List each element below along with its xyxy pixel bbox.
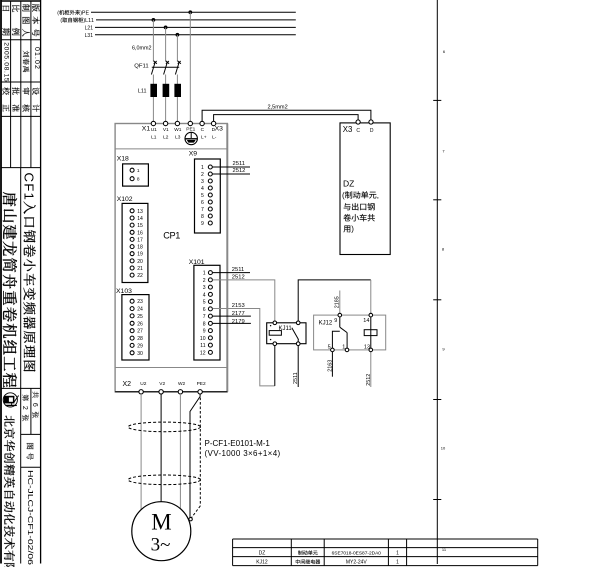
svg-text:10: 10 — [441, 446, 446, 451]
svg-text:10: 10 — [200, 336, 206, 342]
svg-text:9: 9 — [203, 329, 206, 335]
svg-text:11: 11 — [200, 343, 205, 349]
svg-text:2153: 2153 — [232, 303, 245, 309]
svg-text:6SE7018-0ES87-2DA0: 6SE7018-0ES87-2DA0 — [332, 551, 382, 557]
svg-text:L1: L1 — [151, 135, 157, 141]
svg-text:QF11: QF11 — [134, 64, 148, 70]
svg-text:MY2-24V: MY2-24V — [346, 560, 368, 566]
svg-text:9: 9 — [201, 221, 204, 227]
svg-text:X2: X2 — [123, 381, 132, 388]
svg-text:6: 6 — [201, 200, 204, 206]
svg-text:9: 9 — [334, 318, 337, 324]
svg-text:2177: 2177 — [232, 311, 245, 317]
svg-text:1: 1 — [203, 271, 206, 277]
svg-text:18: 18 — [137, 245, 143, 251]
svg-text:U2: U2 — [140, 381, 146, 387]
svg-text:PE1: PE1 — [186, 127, 195, 133]
svg-text:X3: X3 — [215, 126, 224, 133]
svg-text:2179: 2179 — [232, 319, 245, 325]
svg-text:C: C — [201, 127, 205, 133]
svg-text:3: 3 — [203, 285, 206, 291]
svg-text:4: 4 — [203, 292, 206, 298]
svg-text:2185: 2185 — [335, 296, 341, 308]
svg-text:2,5mm2: 2,5mm2 — [268, 105, 288, 111]
svg-text:8: 8 — [203, 321, 206, 327]
svg-text:4: 4 — [201, 186, 204, 192]
svg-text:2512: 2512 — [232, 274, 245, 280]
svg-text:2511: 2511 — [232, 267, 244, 273]
svg-text:X1: X1 — [142, 126, 151, 133]
svg-text:X18: X18 — [117, 156, 129, 163]
svg-text:HC-JLCJ-CF1-02/06: HC-JLCJ-CF1-02/06 — [26, 470, 35, 565]
svg-text:21: 21 — [137, 266, 143, 272]
svg-text:2511: 2511 — [233, 161, 245, 167]
svg-text:X9: X9 — [189, 151, 198, 158]
svg-text:1: 1 — [137, 168, 140, 174]
svg-text:(: ( — [60, 18, 62, 24]
svg-text:14: 14 — [363, 318, 369, 324]
svg-text:3~: 3~ — [151, 535, 171, 556]
svg-text:P-CF1-E0101-M-1: P-CF1-E0101-M-1 — [205, 439, 271, 448]
svg-text:7: 7 — [203, 314, 206, 320]
svg-text:8: 8 — [201, 214, 204, 220]
svg-text:25: 25 — [137, 314, 143, 320]
svg-text:2: 2 — [21, 406, 28, 410]
svg-text:(: ( — [342, 191, 345, 200]
svg-text:D: D — [212, 127, 216, 133]
svg-text:17: 17 — [137, 237, 143, 243]
svg-text:W2: W2 — [178, 381, 186, 387]
svg-text:23: 23 — [137, 299, 143, 305]
svg-text:M: M — [151, 510, 171, 535]
svg-text:V1: V1 — [163, 127, 169, 133]
svg-text:1: 1 — [396, 560, 399, 566]
svg-text:2511: 2511 — [293, 372, 299, 384]
svg-text:,: , — [377, 191, 379, 200]
svg-text:L-: L- — [212, 135, 217, 141]
svg-text:U1: U1 — [151, 127, 157, 133]
svg-text:16: 16 — [137, 230, 143, 236]
svg-text:D: D — [370, 128, 374, 134]
svg-text:2005.08.15: 2005.08.15 — [3, 42, 10, 82]
svg-text:15: 15 — [137, 223, 143, 229]
svg-text:(VV-1000 3×6+1×4): (VV-1000 3×6+1×4) — [205, 449, 281, 458]
svg-text:V2: V2 — [159, 381, 165, 387]
svg-text:X3: X3 — [343, 125, 353, 134]
svg-text:01.02: 01.02 — [33, 47, 40, 70]
svg-text:13: 13 — [137, 209, 143, 215]
svg-text:2: 2 — [201, 172, 204, 178]
svg-text:W1: W1 — [174, 127, 182, 133]
svg-text:L31: L31 — [85, 33, 94, 39]
svg-text:L2: L2 — [163, 135, 169, 141]
svg-text:24: 24 — [137, 307, 143, 313]
svg-text:27: 27 — [137, 329, 143, 335]
svg-text:L11: L11 — [138, 89, 147, 95]
svg-text:22: 22 — [137, 273, 143, 279]
svg-text:1: 1 — [201, 165, 204, 171]
svg-text:DZ: DZ — [259, 551, 266, 557]
svg-text:20: 20 — [137, 259, 143, 265]
svg-text:L21: L21 — [85, 25, 94, 31]
svg-text:14: 14 — [137, 216, 143, 222]
svg-text:6,0mm2: 6,0mm2 — [132, 45, 151, 51]
svg-text:6: 6 — [203, 307, 206, 313]
svg-text:): ) — [351, 225, 354, 234]
svg-text:30: 30 — [137, 351, 143, 357]
svg-text:19: 19 — [137, 252, 143, 258]
svg-text:7: 7 — [201, 207, 204, 213]
svg-text:F: F — [22, 183, 37, 191]
svg-text:3: 3 — [201, 179, 204, 185]
svg-text:L+: L+ — [201, 135, 207, 141]
svg-text:DZ: DZ — [343, 178, 354, 188]
svg-text:8: 8 — [137, 177, 140, 183]
svg-text:CP1: CP1 — [163, 231, 180, 241]
svg-text:1: 1 — [396, 551, 399, 557]
svg-text:12: 12 — [200, 350, 206, 356]
svg-text:C: C — [356, 128, 360, 134]
svg-text:5: 5 — [201, 193, 204, 199]
svg-text:28: 28 — [137, 336, 143, 342]
svg-text:2512: 2512 — [233, 168, 246, 174]
svg-text:PE2: PE2 — [197, 381, 206, 387]
svg-text:E: E — [86, 10, 90, 16]
svg-text:KJ11: KJ11 — [279, 326, 293, 332]
svg-text:5: 5 — [203, 300, 206, 306]
svg-text:X103: X103 — [116, 288, 132, 295]
svg-text:KJ12: KJ12 — [319, 320, 333, 326]
svg-text:X102: X102 — [117, 196, 133, 203]
svg-text:(: ( — [57, 10, 59, 16]
svg-text:6: 6 — [31, 403, 38, 407]
svg-text:29: 29 — [137, 343, 143, 349]
svg-text:26: 26 — [137, 321, 143, 327]
svg-text:1: 1 — [91, 18, 94, 24]
svg-text:KJ12: KJ12 — [256, 560, 268, 566]
svg-text:L3: L3 — [175, 135, 181, 141]
svg-text:2163: 2163 — [327, 360, 333, 372]
svg-text:2: 2 — [203, 278, 206, 284]
svg-text:2512: 2512 — [366, 374, 372, 386]
svg-text:C: C — [22, 173, 37, 183]
svg-text:1: 1 — [22, 193, 37, 200]
